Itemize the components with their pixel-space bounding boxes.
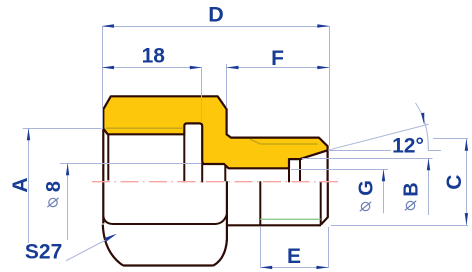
arrow 18 right [190, 66, 202, 69]
svg-text:D: D [208, 3, 224, 27]
extension line F left [226, 64, 228, 108]
angular arc arrow upper [421, 113, 424, 125]
arrow A up [27, 128, 30, 140]
angular dimension arc [416, 103, 429, 150]
svg-text:12°: 12° [392, 135, 424, 158]
stub tip face and chamfer silhouette lower [321, 181, 328, 224]
extension line dia8 horizontal [60, 163, 201, 165]
dimension E line [261, 267, 329, 269]
extension line right (D,F) [329, 26, 331, 146]
chamfer start circle edge lower [320, 181, 322, 224]
hex chamfer arc right upper [216, 214, 227, 224]
groove slot left wall edge [183, 134, 185, 182]
tip face edge upper part [327, 150, 329, 181]
arrow diaG up [382, 169, 385, 181]
arrow F right [317, 66, 329, 69]
bore step edge line [224, 165, 226, 181]
thread minor line on male stub (upper) [250, 139, 318, 144]
arrow E right [316, 266, 328, 269]
dimension diaG vertical line [383, 170, 385, 214]
svg-text:F: F [271, 47, 284, 70]
thread end line lower [259, 181, 261, 225]
leader S27 arrow [104, 234, 116, 242]
centerline [92, 181, 339, 183]
extension line diaB horizontal [302, 158, 433, 160]
extension line E left [260, 227, 262, 268]
yellow section fill of fitting body (upper half section) [103, 96, 327, 168]
12deg slant extension line [328, 124, 429, 150]
hex corner arc right lower [214, 240, 227, 266]
groove slot right wall edge [201, 162, 203, 182]
svg-text:G: G [356, 180, 378, 196]
12deg horizontal extension line stub right [428, 150, 441, 152]
dimension dia8 vertical line [67, 164, 69, 241]
hex right face line [226, 181, 228, 241]
svg-text:B: B [401, 182, 423, 196]
dimension C vertical line [466, 139, 468, 226]
extension line C top [433, 138, 468, 140]
svg-text:8: 8 [43, 181, 65, 192]
svg-text:E: E [287, 245, 301, 268]
arrow C down [465, 213, 468, 225]
extension line diaG horizontal [291, 169, 388, 171]
arrow dia8 up [66, 163, 69, 175]
dimension diaB vertical line [428, 159, 430, 216]
arrow diaB up [427, 158, 430, 170]
leader S27 line [66, 236, 114, 261]
dimension A vertical line [28, 129, 30, 244]
hex flat edge line [113, 223, 216, 225]
svg-text:A: A [9, 177, 32, 192]
arrow 18 left [102, 66, 114, 69]
svg-text:C: C [443, 175, 466, 190]
thread major line in nut bore (olive over yellow) [106, 127, 184, 129]
svg-text:S27: S27 [25, 241, 62, 264]
extension line A horizontal [23, 128, 102, 130]
extension line C bottom [331, 225, 468, 227]
dia symbol for 8 [47, 198, 58, 207]
arrow E left [260, 266, 272, 269]
relief notch left wall [288, 159, 290, 182]
svg-text:18: 18 [142, 45, 166, 68]
extension line left (D,18) [102, 26, 104, 129]
dimension 18 line [103, 67, 202, 69]
12deg horizontal extension line [329, 150, 391, 152]
hex corner arc left lower [103, 225, 123, 266]
arrow F left [227, 66, 239, 69]
left face line (through bore and lower view) [102, 130, 104, 224]
thread minor line lower (green) [260, 218, 320, 220]
hex bottom silhouette line [123, 264, 214, 266]
hex chamfer arc left upper [103, 216, 113, 224]
relief notch right wall [299, 159, 301, 182]
dia symbol for G [360, 202, 371, 211]
extension line 18 right [201, 68, 203, 124]
dimension D line [103, 26, 330, 28]
arrow D right [317, 24, 329, 27]
dia symbol for B [405, 201, 416, 210]
arrow C up [465, 139, 468, 151]
extension line E right [328, 227, 330, 268]
bore entry chamfer edge at left face [107, 134, 109, 180]
arrow D left [102, 24, 114, 27]
threaded stub lower silhouette [227, 224, 321, 226]
dimension F line [227, 67, 330, 69]
